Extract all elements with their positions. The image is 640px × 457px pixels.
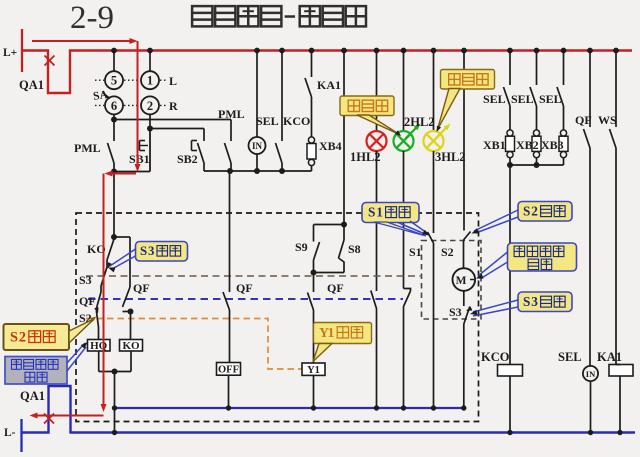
KA1 label top xyxy=(317,78,341,92)
wire node2 to SB2 xyxy=(150,128,204,130)
svg-text:1: 1 xyxy=(328,325,335,340)
svg-text:2HL2: 2HL2 xyxy=(404,115,435,129)
switch S2 left xyxy=(97,312,99,340)
node S8 top xyxy=(341,222,347,228)
switch PML2 xyxy=(225,120,232,172)
node bus 536 xyxy=(534,48,540,54)
svg-text:OFF: OFF xyxy=(218,365,239,376)
callout S3-closed box xyxy=(136,242,188,262)
QA1 label top xyxy=(19,78,44,92)
pushbutton SB2 xyxy=(192,129,205,172)
node chain top xyxy=(111,234,117,240)
R label xyxy=(169,99,178,113)
wire IN to row xyxy=(256,154,258,171)
lit arrow green xyxy=(406,124,421,139)
svg-text:XB3: XB3 xyxy=(541,138,564,152)
red flow left 172 xyxy=(105,171,137,177)
svg-text:XB1: XB1 xyxy=(483,138,506,152)
node bus 433 xyxy=(431,48,437,54)
wire to SA contact 1 xyxy=(149,51,151,72)
svg-text:3: 3 xyxy=(531,294,538,309)
svg-text:L-: L- xyxy=(4,427,16,439)
callout Y1-energized box xyxy=(314,323,372,344)
svg-text:5: 5 xyxy=(111,74,117,88)
S3 label right xyxy=(449,305,462,319)
fuse XB4 xyxy=(307,137,316,171)
svg-text:KA1: KA1 xyxy=(597,350,622,364)
svg-text:IN: IN xyxy=(252,141,263,151)
node blue mid 114 xyxy=(112,405,117,410)
SA contact 6 xyxy=(105,96,123,114)
grey box arrows xyxy=(67,342,88,371)
svg-text:KCO: KCO xyxy=(481,350,510,364)
callout S2-open text xyxy=(523,203,565,218)
SA contact 1 xyxy=(141,71,159,89)
callout motor-stop box xyxy=(508,243,577,271)
grey box closing-coil xyxy=(5,357,67,385)
wire 510 down to KCO coil xyxy=(509,165,511,365)
callout Y1-energized text xyxy=(319,325,363,340)
XB3 label xyxy=(541,138,564,152)
wire blue L- bus with QA1 break xyxy=(22,386,636,433)
wire blue mid bus xyxy=(115,407,464,409)
node PML1 bottom xyxy=(111,169,117,175)
fault cross on QA1 top xyxy=(45,56,55,66)
svg-text:SB1: SB1 xyxy=(129,152,150,166)
node bus 344 xyxy=(341,48,347,54)
svg-text:M: M xyxy=(456,275,467,287)
wire SELIN down xyxy=(590,381,592,432)
XB2 label xyxy=(516,138,539,152)
svg-text:HQ: HQ xyxy=(90,340,108,352)
svg-text:L: L xyxy=(169,74,177,88)
svg-text:R: R xyxy=(169,99,178,113)
node blue mid 376 xyxy=(374,405,379,410)
wire S8 bottom join xyxy=(314,272,345,274)
wire lamp2 down xyxy=(403,151,405,289)
svg-text:XB2: XB2 xyxy=(516,138,539,152)
svg-text:WS: WS xyxy=(598,113,617,127)
wire SELIN top xyxy=(589,365,592,367)
callout yellow-light box xyxy=(441,70,495,90)
callout S3-closed text xyxy=(140,244,181,258)
node 230/171 xyxy=(227,168,233,174)
wire lamp3 down xyxy=(433,151,435,233)
node coils join xyxy=(112,369,118,375)
callout motor-stop text xyxy=(514,246,564,270)
XB4 label xyxy=(319,139,342,153)
SEL label bottom xyxy=(558,350,582,364)
callout S1-closed arrows xyxy=(398,221,430,236)
lamp 1HL2 red xyxy=(367,131,387,151)
svg-text:L+: L+ xyxy=(3,47,17,59)
red flow down long xyxy=(101,174,107,413)
node bus 376 xyxy=(374,48,380,54)
switch SEL 3 xyxy=(557,51,564,131)
indicator SEL IN xyxy=(249,137,266,154)
wire bus to S2 xyxy=(463,51,465,231)
node bus 563 xyxy=(561,48,567,54)
svg-text:QF: QF xyxy=(133,281,150,295)
SEL labels row xyxy=(483,92,562,106)
wire fuse join xyxy=(510,164,564,166)
svg-text:S: S xyxy=(523,203,530,218)
node 282/171 xyxy=(279,168,285,174)
node bus 311 xyxy=(309,48,315,54)
SA handle tick xyxy=(103,93,110,99)
callout S1-closed tail xyxy=(374,222,426,236)
coil KO xyxy=(120,340,143,353)
node 257/171 xyxy=(254,168,260,174)
callout S3-open box xyxy=(518,292,572,312)
wire SB row to QF mid xyxy=(229,171,231,292)
WS label xyxy=(598,113,617,127)
wire KO down xyxy=(130,351,132,372)
wire WS to KA1 coil xyxy=(616,364,620,366)
svg-text:QA1: QA1 xyxy=(19,78,44,92)
wire KA1 coil down xyxy=(619,376,621,433)
XB1 label xyxy=(483,138,506,152)
fault cross on QA1 bottom xyxy=(44,414,54,424)
node 536/165 xyxy=(534,162,540,168)
callout green-light box xyxy=(340,96,394,116)
lamp 2HL2 green xyxy=(394,131,414,151)
switch QF Y1 column xyxy=(308,273,314,364)
switch SEL 2 xyxy=(530,51,537,131)
wire coils join xyxy=(99,371,131,373)
svg-text:S3: S3 xyxy=(79,273,92,287)
switch S8 xyxy=(339,225,345,273)
svg-text:S2: S2 xyxy=(441,245,454,259)
switch QF left chain xyxy=(97,292,102,312)
node blue mid 403 xyxy=(401,405,406,410)
wire lamp1 down xyxy=(376,151,378,291)
switch QF right xyxy=(584,51,591,367)
node blue mid 463 xyxy=(461,405,466,410)
wire bus to S8 node xyxy=(343,51,345,225)
wire below contact 6 xyxy=(113,114,115,120)
node blue low 590 xyxy=(588,430,593,435)
node blue mid 313 xyxy=(311,405,316,410)
fuse XB3 xyxy=(559,130,568,165)
QA1 label bottom xyxy=(20,389,45,403)
switch S2 xyxy=(464,232,471,268)
svg-text:1: 1 xyxy=(376,204,383,219)
SA contact 2 xyxy=(141,96,159,114)
SB2 label xyxy=(177,152,198,166)
svg-text:2: 2 xyxy=(19,329,26,345)
S9 label xyxy=(295,240,308,254)
node S9S8 bottom xyxy=(311,270,317,276)
contact arrow S2 xyxy=(94,307,98,313)
1HL2 label xyxy=(350,150,381,164)
svg-text:QF: QF xyxy=(327,281,344,295)
svg-text:KA1: KA1 xyxy=(317,78,341,92)
S2 label xyxy=(441,245,454,259)
wire PML1 to chain xyxy=(113,172,115,238)
svg-text:QF: QF xyxy=(79,294,96,308)
node bus 464 xyxy=(461,48,467,54)
node blue mid 433 xyxy=(431,405,436,410)
svg-text:Y1: Y1 xyxy=(307,365,320,376)
node bus 282 xyxy=(279,48,285,54)
SB1 label xyxy=(129,152,150,166)
callout S1-closed box xyxy=(362,203,419,223)
coil HQ xyxy=(88,340,111,353)
svg-text:SEL: SEL xyxy=(558,350,582,364)
switch PML1 xyxy=(108,120,115,173)
wire to lamp 2HL2 xyxy=(403,51,405,132)
L+ label xyxy=(3,47,17,59)
svg-text:QF: QF xyxy=(236,281,253,295)
wire to IN lamp xyxy=(256,51,258,138)
S1 label xyxy=(409,245,422,259)
red flow left bottom xyxy=(30,413,104,419)
switch QF branch xyxy=(123,287,131,312)
callout green-light tail xyxy=(357,115,401,136)
svg-text:1: 1 xyxy=(147,74,153,88)
wire HQ down xyxy=(98,351,100,372)
linkage dashed S3 row xyxy=(86,275,421,277)
switch KCO xyxy=(276,51,283,172)
node bus 257 xyxy=(254,48,260,54)
wire PML1-SB1 join xyxy=(114,171,150,173)
S2 label left xyxy=(79,311,92,325)
switch S9 xyxy=(314,242,320,273)
red flow arrow top xyxy=(32,38,138,44)
node under 6 xyxy=(111,117,117,123)
svg-text:SEL: SEL xyxy=(256,114,279,128)
callout Y1-energized tail xyxy=(313,344,332,362)
node 510/165 xyxy=(507,162,513,168)
wire node6 to PML2 xyxy=(114,119,231,121)
PML label mid xyxy=(218,107,245,121)
svg-text:SB2: SB2 xyxy=(177,152,198,166)
callout S1-closed text xyxy=(368,204,410,219)
L- terminal xyxy=(20,419,22,452)
wire KCO down xyxy=(509,376,511,433)
KCO label top xyxy=(283,114,310,128)
indicator SEL IN bottom xyxy=(583,366,598,381)
switch QF lamp1 col xyxy=(371,291,377,409)
svg-text:PML: PML xyxy=(74,141,101,155)
coil Y1 xyxy=(302,363,325,376)
QF label branch xyxy=(133,281,150,295)
wire row bus 171 xyxy=(204,170,312,172)
L label xyxy=(169,74,177,88)
QF label Y1 column xyxy=(327,281,344,295)
wire chain to QF branch xyxy=(114,237,130,287)
linkage dashed QF row blue xyxy=(88,298,403,300)
dashed enclosure box xyxy=(76,213,479,422)
KO label xyxy=(87,242,106,256)
callout green-light text xyxy=(348,100,387,111)
node blue low 510 xyxy=(507,430,512,435)
switch S3 left xyxy=(101,267,107,292)
callout yellow-light tail xyxy=(437,89,461,133)
wire red L+ bus with QA1 break xyxy=(22,51,632,94)
switch KA1 xyxy=(305,51,312,138)
dashed mechanism box xyxy=(422,241,482,320)
red flow down 137 xyxy=(135,41,141,172)
wire join down to L- xyxy=(114,372,116,433)
SEL label top xyxy=(256,114,279,128)
wire to SA contact 5 xyxy=(113,51,115,72)
coil KCO xyxy=(498,365,523,377)
callout S3-open text xyxy=(523,294,565,309)
coil OFF xyxy=(217,363,241,376)
lit arrow yellow xyxy=(436,124,451,139)
svg-text:S3: S3 xyxy=(449,305,462,319)
svg-text:S8: S8 xyxy=(348,242,361,256)
svg-text:KCO: KCO xyxy=(283,114,310,128)
QF label mid xyxy=(236,281,253,295)
node bus 403 xyxy=(401,48,407,54)
svg-text:S: S xyxy=(368,204,375,219)
wire to KO coil xyxy=(130,312,132,340)
L+ terminal xyxy=(21,29,23,72)
node QF branch bottom xyxy=(128,309,134,315)
callout S2-closed box xyxy=(4,324,70,350)
svg-text:2: 2 xyxy=(147,99,153,113)
svg-text:XB4: XB4 xyxy=(319,139,342,153)
svg-text:SEL: SEL xyxy=(539,92,562,106)
svg-text:S1: S1 xyxy=(409,245,422,259)
motor M xyxy=(453,268,476,291)
svg-text:S: S xyxy=(140,244,147,258)
SA label xyxy=(92,89,109,103)
wire M down xyxy=(463,291,465,306)
pushbutton SB1 xyxy=(140,129,151,172)
switch WS xyxy=(610,51,617,365)
svg-text:3HL2: 3HL2 xyxy=(435,150,466,164)
3HL2 label xyxy=(435,150,466,164)
title text 2-9 xyxy=(70,0,114,36)
svg-text:SEL: SEL xyxy=(483,92,506,106)
svg-text:SEL: SEL xyxy=(511,92,534,106)
callout S2-closed tail xyxy=(69,317,97,344)
L- label xyxy=(4,427,16,439)
svg-text:KO: KO xyxy=(122,340,140,352)
callout motor-stop arrows xyxy=(476,252,508,279)
node bus 114 xyxy=(111,48,117,54)
wire to lamp 1HL2 xyxy=(376,51,378,132)
PML label left xyxy=(74,141,101,155)
grey box text xyxy=(12,360,59,383)
switch SEL 1 xyxy=(504,51,511,131)
svg-text:2: 2 xyxy=(531,203,538,218)
callout S2-open arrows xyxy=(472,210,519,234)
svg-text:3: 3 xyxy=(148,244,154,258)
QF label top right xyxy=(575,113,592,127)
switch S3 right xyxy=(464,307,470,409)
dotted link row1 xyxy=(95,79,167,81)
svg-text:S9: S9 xyxy=(295,240,308,254)
callout S3-closed arrows xyxy=(108,249,136,272)
node bus 590 xyxy=(587,48,593,54)
svg-text:S: S xyxy=(10,329,18,345)
S8 label xyxy=(348,242,361,256)
node bus 616 xyxy=(613,48,619,54)
svg-text:QA1: QA1 xyxy=(20,389,45,403)
callout yellow-light text xyxy=(449,74,488,85)
contact arrow S3r xyxy=(466,306,472,311)
callout S2-closed text xyxy=(10,329,55,345)
dotted link row2 xyxy=(95,104,167,106)
2HL2 label xyxy=(404,115,435,129)
switch QF mid xyxy=(223,292,230,363)
S3 label left xyxy=(79,273,92,287)
svg-text:6: 6 xyxy=(111,99,117,113)
wire below contact 2 xyxy=(149,114,151,128)
contact arrow S3 xyxy=(108,262,113,268)
callout S3-open arrows xyxy=(470,300,518,316)
wire S8 node to S9 xyxy=(314,225,345,242)
switch S1 xyxy=(428,232,434,408)
svg-text:2-9: 2-9 xyxy=(70,0,114,36)
coil KA1 xyxy=(609,365,633,377)
switch KO xyxy=(107,237,114,267)
linkage dashed S2 orange to Y1 xyxy=(86,319,302,370)
callout S2-open box xyxy=(518,202,572,222)
wire to lamp 3HL2 xyxy=(433,51,435,132)
KCO label bottom xyxy=(481,350,510,364)
wire Y1 down xyxy=(313,375,315,408)
fuse XB1 xyxy=(506,130,515,165)
node blue low 620 xyxy=(617,430,622,435)
QF label left xyxy=(79,294,96,308)
SA contact 5 xyxy=(105,71,123,89)
wire OFF down xyxy=(228,375,230,408)
svg-text:S: S xyxy=(523,294,530,309)
node bus 150 xyxy=(147,48,153,54)
fuse XB2 xyxy=(532,130,541,165)
node bus 510 xyxy=(507,48,513,54)
node under 2 xyxy=(147,126,153,132)
svg-text:PML: PML xyxy=(218,107,245,121)
title text main xyxy=(192,6,366,26)
svg-text:IN: IN xyxy=(586,369,596,379)
KA1 label bottom xyxy=(597,350,622,364)
switch QF lamp2 col xyxy=(404,289,411,409)
node blue low 114 xyxy=(112,430,117,435)
lamp 3HL2 yellow xyxy=(424,131,444,151)
node blue mid 228 xyxy=(226,405,231,410)
